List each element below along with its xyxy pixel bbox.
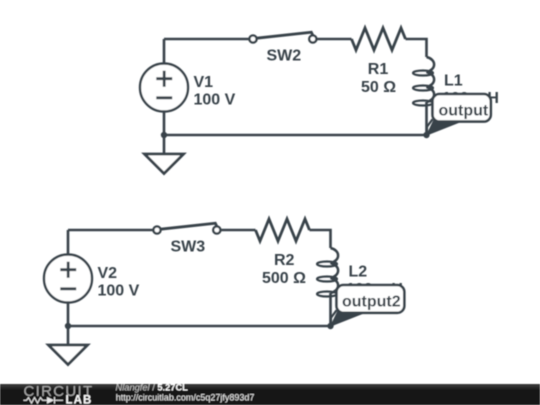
svg-text:R1: R1 [368,61,389,78]
resistor R2 [256,219,310,241]
output flag 2 box [337,285,405,313]
voltage source V2 [44,255,92,303]
svg-text:output2: output2 [342,294,401,311]
svg-text:SW3: SW3 [171,239,206,256]
resistor R1 [352,28,406,50]
logo squiggle [24,397,64,404]
svg-text:L1: L1 [444,73,463,90]
wire ground2 stem [67,326,70,345]
wire resistor to corner [406,39,427,57]
svg-text:R2: R2 [274,252,295,269]
node dot output1 [423,132,429,138]
wire switch to resistor [316,38,351,41]
switch SW2 [257,32,313,38]
svg-text:Nlangfel / 5.27CL: Nlangfel / 5.27CL [116,383,189,393]
output flag 2 tail [331,311,363,326]
svg-text:SW2: SW2 [267,48,302,65]
inductor L2 [331,248,339,293]
wire V1 bottom stem [163,112,166,135]
wire V1 top stem [163,39,166,63]
wire inductor 2 to bottom node [329,293,332,326]
svg-text:100 V: 100 V [194,91,236,108]
svg-text:V2: V2 [98,265,118,282]
node dot V2-gnd [65,323,71,329]
output flag 1 box [433,94,491,122]
node dot V1-gnd [161,132,167,138]
svg-text:L2: L2 [349,264,368,281]
svg-text:output: output [439,103,489,120]
switch SW3 [161,223,217,229]
output flag 2 tail outline [331,310,337,325]
wire ground1 stem [163,135,166,154]
wire inductor to bottom node [425,102,428,135]
wire top row circuit 2 [68,229,153,232]
wire V2 bottom stem [67,303,70,326]
svg-text:500 Ω: 500 Ω [262,270,306,287]
svg-text:100 V: 100 V [98,282,140,299]
svg-text:V1: V1 [194,74,214,91]
svg-text:LAB: LAB [66,395,93,405]
ground circuit 2 [49,345,88,365]
wire bottom row circuit 2 [68,325,331,328]
voltage source V1 [140,64,188,112]
svg-text:50 Ω: 50 Ω [361,79,396,96]
wire top row circuit 1 [164,38,249,41]
output flag 1 tail [427,120,459,135]
node dot output2 [327,323,333,329]
wire resistor 2 to corner [310,230,331,248]
svg-text:http://circuitlab.com/c5q27jfy: http://circuitlab.com/c5q27jfy893d7 [116,393,255,403]
wire bottom row circuit 1 [164,134,427,137]
wire V2 top stem [67,230,70,254]
wire switch to resistor 2 [220,229,255,232]
ground circuit 1 [145,154,184,174]
inductor L1 [427,57,435,102]
output flag 1 tail outline [427,119,433,134]
